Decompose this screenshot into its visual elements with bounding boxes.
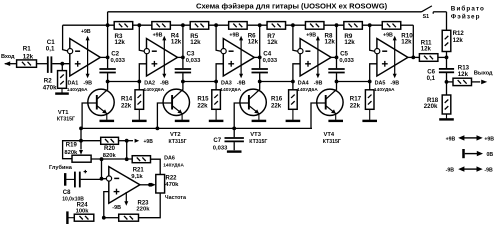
wire: node row to C/VT junction bbox=[108, 81, 140, 83]
svg-text:R22: R22 bbox=[166, 176, 178, 182]
legend: 0B ground bbox=[462, 149, 465, 158]
wire: R21 to R22 top bbox=[151, 159, 161, 174]
wire: DA4 output riser to bus bbox=[336, 25, 338, 57]
junction: C2/VT1 collector node bbox=[106, 80, 110, 84]
junction: DA4 out on bus bbox=[335, 23, 339, 27]
resistor R13 12k bbox=[447, 81, 454, 83]
svg-text:12k: 12k bbox=[115, 39, 126, 46]
wire: R19 left terminal loop bbox=[63, 141, 101, 159]
svg-text:-9B: -9B bbox=[484, 168, 493, 174]
wire: divider node up to DA6 +in bbox=[104, 192, 109, 218]
capacitor C8 10,0x10B electrolytic bbox=[74, 172, 76, 188]
junction: DA3 output node bbox=[258, 56, 262, 60]
junction: DA3 -in tap bbox=[214, 23, 218, 27]
svg-text:12k: 12k bbox=[23, 53, 34, 60]
wire: DA1 output to switch S1 (top line) bbox=[108, 11, 422, 13]
svg-text:Фэйзер: Фэйзер bbox=[451, 13, 481, 21]
svg-text:140УД6А: 140УД6А bbox=[67, 87, 88, 93]
wire: LFO bus bbox=[81, 127, 312, 129]
wire: output with arrow bbox=[472, 81, 481, 83]
transistor VT3 КТ315Г bbox=[240, 89, 266, 115]
wire: C1 to DA1 +in bbox=[52, 63, 70, 65]
capacitor C1 bbox=[47, 56, 49, 73]
ground: R17 bbox=[369, 109, 371, 120]
pin: DA2 inverting input circle bbox=[144, 49, 149, 54]
svg-text:-9B: -9B bbox=[314, 81, 323, 87]
junction: DA1 out on bus bbox=[106, 23, 110, 27]
capacitor C7 0,033 bbox=[233, 128, 235, 137]
transistor VT1 КТ315Г bbox=[88, 89, 114, 115]
resistor R8 bbox=[305, 22, 324, 30]
resistor R5 bbox=[190, 22, 209, 30]
junction: DA2 +in node bbox=[137, 80, 141, 84]
svg-text:12k: 12k bbox=[458, 71, 469, 78]
svg-text:Глубина: Глубина bbox=[49, 164, 73, 171]
svg-text:100k: 100k bbox=[76, 209, 90, 215]
resistor R1 bbox=[17, 60, 37, 67]
resistor R21 9,1k bbox=[132, 156, 150, 163]
svg-text:C3: C3 bbox=[187, 50, 195, 57]
resistor R15 22k bbox=[212, 90, 221, 110]
wire: DA2 output bbox=[178, 56, 183, 58]
resistor R9 bbox=[344, 22, 363, 30]
svg-text:КТ315Г: КТ315Г bbox=[169, 139, 187, 145]
svg-text:0,1: 0,1 bbox=[427, 75, 436, 82]
svg-text:10,0x10B: 10,0x10B bbox=[62, 197, 84, 203]
op-amp DA2 140УД6А bbox=[147, 39, 178, 77]
wire: S1 to R12 bbox=[446, 12, 448, 31]
svg-text:C8: C8 bbox=[63, 190, 71, 196]
junction: C6/R13/R18 bbox=[445, 80, 449, 84]
op-amp DA6 140УД6А bbox=[109, 167, 140, 204]
resistor R12 12k bbox=[442, 30, 451, 51]
ground: VT1 emitter bbox=[106, 115, 108, 120]
wire: feedback bus bbox=[63, 24, 115, 26]
ground: VT2 emitter bbox=[181, 115, 183, 120]
transistor VT2 КТ315Г bbox=[163, 89, 189, 115]
junction: R20 riser on -in row bbox=[125, 157, 129, 161]
wire: R20 to +9B arrow bbox=[119, 140, 134, 142]
svg-text:12k: 12k bbox=[421, 46, 432, 53]
pin: DA6 inverting input circle bbox=[106, 176, 111, 181]
junction: DA2 out on bus bbox=[181, 23, 185, 27]
svg-text:+9B: +9B bbox=[153, 33, 163, 39]
svg-text:DA6: DA6 bbox=[164, 155, 175, 161]
svg-text:DA5: DA5 bbox=[375, 81, 386, 87]
resistor R10 bbox=[382, 22, 401, 30]
power -9B arrow DA6 bbox=[125, 192, 127, 202]
resistor R20 820k bbox=[101, 137, 119, 144]
svg-text:C2: C2 bbox=[111, 50, 119, 57]
ground: R24 (side bar) bbox=[68, 217, 74, 219]
svg-text:VT4: VT4 bbox=[324, 132, 335, 138]
svg-text:12k: 12k bbox=[190, 39, 201, 46]
junction: DA4 output node bbox=[335, 56, 339, 60]
svg-text:0,033: 0,033 bbox=[339, 58, 354, 64]
junction: R19 left/R20 node bbox=[79, 139, 83, 143]
power -9B arrow DA4 bbox=[316, 74, 320, 79]
resistor R2 bbox=[61, 64, 63, 71]
svg-text:R1: R1 bbox=[23, 46, 31, 53]
wire: DA2 -in tap from bus bbox=[139, 25, 144, 51]
svg-text:-9B: -9B bbox=[237, 81, 246, 87]
wire: vertical DA1 output riser bbox=[107, 12, 109, 58]
svg-text:0,033: 0,033 bbox=[263, 58, 278, 64]
resistor R3 bbox=[114, 22, 133, 30]
potentiometer R19 820k Глубина bbox=[79, 150, 83, 155]
junction: DA5 +in node bbox=[368, 80, 372, 84]
svg-text:КТ315Г: КТ315Г bbox=[323, 139, 341, 145]
wire: DA1 -in tap from bus bbox=[63, 25, 68, 51]
svg-text:КТ315Г: КТ315Г bbox=[57, 117, 75, 123]
wire: R11 to C6 node bbox=[438, 56, 447, 58]
ground: VT3 emitter bbox=[258, 115, 260, 120]
svg-text:+9B: +9B bbox=[446, 136, 456, 142]
svg-text:820k: 820k bbox=[103, 153, 117, 159]
svg-text:DA4: DA4 bbox=[298, 81, 309, 87]
svg-text:R23: R23 bbox=[138, 200, 150, 206]
svg-text:140УД6А: 140УД6А bbox=[374, 87, 395, 93]
resistor R18 220k bbox=[446, 82, 448, 95]
svg-text:+9B: +9B bbox=[81, 29, 91, 35]
wire: VT4 base to LFO bus bbox=[311, 103, 326, 128]
svg-text:12k: 12k bbox=[344, 39, 355, 46]
svg-text:Вход: Вход bbox=[1, 54, 15, 60]
svg-text:0,033: 0,033 bbox=[186, 58, 201, 64]
svg-text:22k: 22k bbox=[271, 102, 282, 109]
potentiometer R22 470k Частота bbox=[156, 175, 165, 194]
svg-text:R19: R19 bbox=[66, 143, 78, 149]
svg-text:+9B: +9B bbox=[484, 136, 494, 142]
svg-text:R2: R2 bbox=[44, 77, 52, 84]
wire: DA4 output bbox=[331, 56, 336, 58]
resistor R16 22k bbox=[289, 90, 298, 110]
svg-text:Схема фэйзера для гитары (UOSO: Схема фэйзера для гитары (UOSOHX ex ROSO… bbox=[196, 2, 388, 11]
wire: node row to C/VT junction bbox=[337, 81, 370, 83]
wire: DA3 output bbox=[254, 56, 259, 58]
svg-text:0,1: 0,1 bbox=[46, 46, 55, 53]
resistor R4 bbox=[152, 22, 171, 30]
junction: DA4 -in tap bbox=[291, 23, 295, 27]
wire: R1 to C1 bbox=[37, 63, 48, 65]
junction: DA3 +in node bbox=[214, 80, 218, 84]
svg-text:Вибрато: Вибрато bbox=[451, 4, 485, 12]
wire: DA3 output riser to bus bbox=[259, 25, 261, 57]
wire: DA2 +in to node bbox=[139, 64, 146, 90]
resistor R17 22k bbox=[365, 90, 374, 110]
power +9B arrow DA1 bbox=[87, 40, 89, 75]
svg-text:820k: 820k bbox=[64, 150, 78, 156]
wire: DA2 output riser to bus bbox=[182, 25, 184, 57]
wire: VT2 base to LFO bus bbox=[157, 103, 172, 128]
svg-text:+9B: +9B bbox=[383, 33, 393, 39]
power +9B arrow DA4 bbox=[317, 40, 319, 75]
pin: DA3 inverting input circle bbox=[221, 49, 226, 54]
svg-text:DA1: DA1 bbox=[68, 81, 79, 87]
svg-text:Частота: Частота bbox=[165, 195, 187, 201]
wire: riser to R21 row bbox=[126, 141, 128, 160]
op-amp DA5 140УД6А bbox=[377, 39, 408, 77]
power -9B arrow DA3 bbox=[239, 74, 243, 79]
svg-text:140УД6А: 140УД6А bbox=[144, 87, 165, 93]
svg-text:0B: 0B bbox=[487, 152, 494, 158]
ground: C7 bbox=[227, 150, 242, 152]
svg-text:12k: 12k bbox=[325, 39, 336, 46]
wire: DA1 output bbox=[100, 56, 107, 58]
svg-text:C7: C7 bbox=[213, 137, 221, 144]
capacitor C2 0,033 bbox=[107, 57, 109, 68]
svg-text:Выход: Выход bbox=[474, 70, 493, 76]
svg-text:470k: 470k bbox=[165, 182, 179, 188]
svg-text:-9B: -9B bbox=[112, 205, 121, 211]
junction: VT1 base / R19 wiper node bbox=[79, 126, 83, 130]
capacitor C3 0,033 bbox=[182, 57, 184, 68]
ground: VT4 emitter bbox=[335, 115, 337, 120]
wire: -in row R19 to R21 bbox=[91, 158, 132, 160]
wire: R23 to R24 bbox=[104, 217, 119, 219]
svg-text:22k: 22k bbox=[121, 102, 132, 109]
svg-text:R21: R21 bbox=[133, 168, 145, 174]
junction: DA2 output node bbox=[181, 56, 185, 60]
pin: DA5 inverting input circle bbox=[375, 49, 380, 54]
wire: R12 bottom bbox=[446, 52, 448, 58]
svg-text:12k: 12k bbox=[401, 39, 412, 46]
junction: +in divider node bbox=[102, 216, 106, 220]
svg-text:КТ315Г: КТ315Г bbox=[249, 139, 267, 145]
ground: C8 (side bar) bbox=[66, 178, 74, 180]
junction: VT2 base on bus bbox=[156, 126, 160, 130]
svg-text:0,033: 0,033 bbox=[213, 146, 228, 152]
junction: C8 / -in bbox=[100, 177, 104, 181]
junction: C3/VT2 collector node bbox=[181, 80, 185, 84]
svg-text:C5: C5 bbox=[340, 50, 348, 57]
svg-text:12k: 12k bbox=[171, 39, 182, 46]
svg-text:220k: 220k bbox=[136, 207, 150, 213]
wire: -in node down to DA6 bbox=[102, 159, 107, 179]
power -9B arrow DA5 bbox=[393, 74, 397, 79]
wire: bus node down to R19 wiper bbox=[80, 128, 82, 149]
wire: R22 bottom to feedback row bbox=[139, 193, 161, 218]
ground: R15 bbox=[215, 109, 217, 120]
op-amp DA1 140УД6А bbox=[70, 39, 101, 77]
svg-text:140УД6А: 140УД6А bbox=[163, 162, 184, 168]
junction: C5/VT4 collector node bbox=[335, 80, 339, 84]
pin: DA1 inverting input circle bbox=[68, 49, 73, 54]
ground: R2 bbox=[61, 88, 63, 92]
junction: VT3 base / C7 node bbox=[232, 126, 236, 130]
junction: C4/VT3 collector node bbox=[258, 80, 262, 84]
svg-text:-9B: -9B bbox=[391, 81, 400, 87]
wire: node row to C/VT junction bbox=[183, 81, 216, 83]
svg-text:+9B: +9B bbox=[144, 139, 154, 145]
junction: DA3 out on bus bbox=[258, 23, 262, 27]
resistor R11 12k bbox=[413, 56, 419, 58]
wire: VT3 base to LFO bus bbox=[234, 103, 249, 128]
svg-text:DA3: DA3 bbox=[221, 81, 232, 87]
svg-text:9,1k: 9,1k bbox=[131, 174, 143, 180]
svg-text:140УД6А: 140УД6А bbox=[220, 87, 241, 93]
power +9B arrow DA2 bbox=[163, 40, 165, 75]
power +9B arrow DA3 bbox=[240, 40, 242, 75]
wire: DA3 -in tap from bus bbox=[216, 25, 221, 51]
svg-text:-9B: -9B bbox=[446, 168, 455, 174]
ground: R14 bbox=[138, 109, 140, 120]
svg-text:+9B: +9B bbox=[306, 33, 316, 39]
capacitor C5 0,033 bbox=[336, 57, 338, 68]
svg-text:470k: 470k bbox=[43, 84, 57, 91]
wire: DA4 -in tap from bus bbox=[293, 25, 298, 51]
power -9B arrow DA1 bbox=[86, 74, 90, 79]
svg-text:0,033: 0,033 bbox=[111, 58, 126, 64]
transistor VT4 КТ315Г bbox=[317, 89, 343, 115]
wire: DA5 output riser to bus bbox=[412, 25, 414, 57]
junction: R11/R12/C6 bbox=[445, 56, 449, 60]
svg-text:140УД6А: 140УД6А bbox=[297, 87, 318, 93]
svg-text:VT1: VT1 bbox=[58, 110, 69, 116]
svg-text:22k: 22k bbox=[350, 102, 361, 109]
svg-text:-9B: -9B bbox=[160, 81, 169, 87]
junction: R20/R21 riser bbox=[125, 139, 129, 143]
svg-text:VT2: VT2 bbox=[170, 132, 181, 138]
resistor R7 bbox=[267, 22, 286, 30]
resistor R24 100k bbox=[74, 214, 94, 221]
junction: input node bbox=[60, 62, 64, 66]
capacitor C6 0,1 bbox=[446, 57, 448, 68]
ground: R16 bbox=[292, 109, 294, 120]
wire: DA6 output to R22 wiper bbox=[140, 184, 151, 186]
op-amp DA3 140УД6А bbox=[223, 39, 254, 77]
svg-text:C4: C4 bbox=[263, 50, 271, 57]
op-amp DA4 140УД6А bbox=[300, 39, 331, 77]
wire: VT1 base to LFO bus bbox=[82, 103, 97, 128]
junction: DA4 +in node bbox=[291, 80, 295, 84]
resistor R6 bbox=[229, 22, 248, 30]
junction: DA5 output node bbox=[411, 56, 415, 60]
svg-text:VT3: VT3 bbox=[250, 132, 261, 138]
wire: DA3 +in to node bbox=[216, 64, 223, 90]
wire: DA4 +in to node bbox=[293, 64, 300, 90]
junction: -in node drop bbox=[100, 157, 104, 161]
junction: DA1 output node bbox=[106, 56, 110, 60]
pin: DA4 inverting input circle bbox=[298, 49, 303, 54]
power +9B arrow DA5 bbox=[394, 40, 396, 75]
wire: DA5 +in to node bbox=[370, 64, 377, 90]
svg-text:+9B: +9B bbox=[229, 33, 239, 39]
svg-text:-9B: -9B bbox=[83, 81, 92, 87]
wire: DA5 output bbox=[408, 56, 413, 58]
resistor R14 22k bbox=[135, 90, 144, 110]
power -9B arrow DA2 bbox=[162, 74, 166, 79]
svg-text:12k: 12k bbox=[248, 39, 259, 46]
svg-text:220k: 220k bbox=[424, 103, 438, 110]
switch S1 bbox=[422, 6, 432, 12]
svg-text:22k: 22k bbox=[197, 102, 208, 109]
svg-text:S1: S1 bbox=[423, 14, 430, 20]
resistor R23 220k bbox=[119, 214, 139, 221]
wire: node row to C/VT junction bbox=[260, 81, 293, 83]
svg-text:12k: 12k bbox=[267, 39, 278, 46]
svg-text:12k: 12k bbox=[453, 37, 464, 44]
svg-text:R20: R20 bbox=[104, 146, 116, 152]
svg-text:R24: R24 bbox=[77, 202, 89, 208]
capacitor C4 0,033 bbox=[259, 57, 261, 68]
wire: DA5 -in tap from bus bbox=[370, 25, 375, 51]
junction: DA5 -in tap bbox=[368, 23, 372, 27]
ground: R18 bbox=[446, 114, 448, 118]
junction: DA2 -in tap bbox=[137, 23, 141, 27]
svg-text:DA2: DA2 bbox=[144, 81, 155, 87]
wire: input with arrow bbox=[5, 63, 17, 65]
